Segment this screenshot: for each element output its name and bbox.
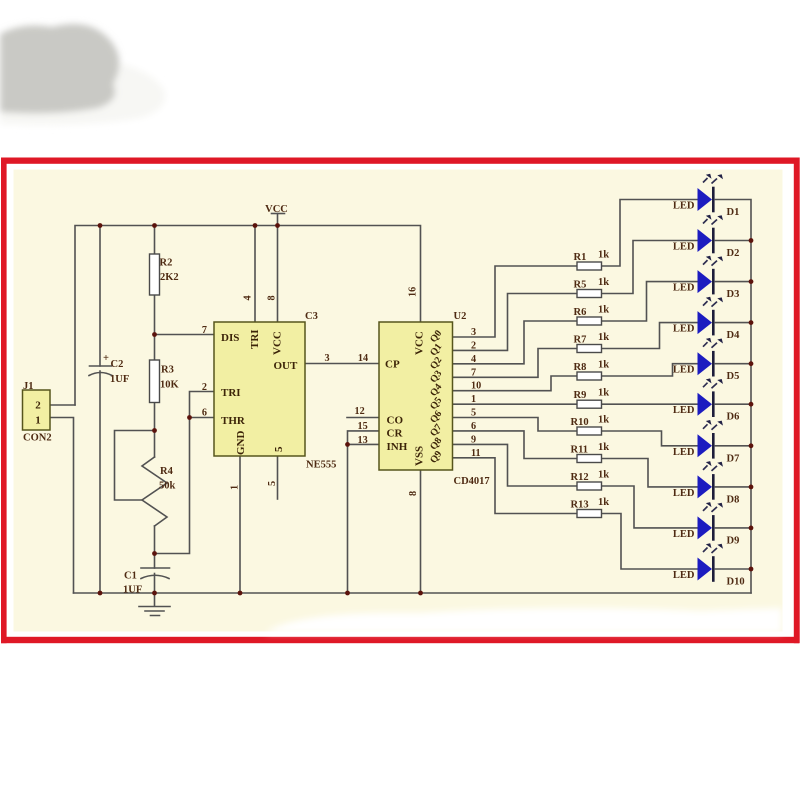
resistor R11 body (577, 455, 602, 463)
resistor R9 body (577, 400, 602, 408)
wire R10 to LED D7 (602, 431, 698, 446)
junction D4 cathode on rail (749, 320, 754, 325)
svg-text:CO: CO (387, 415, 404, 427)
wire Q0 to R1 (453, 266, 578, 337)
LED D3 (698, 256, 724, 295)
junction C1 bottom / GND (152, 591, 157, 596)
resistor R12 body (577, 482, 602, 490)
svg-text:1: 1 (471, 394, 476, 405)
wire Q4 to R8 (453, 376, 578, 391)
resistor R5 body (577, 290, 602, 298)
wire right LED rail (716, 200, 752, 594)
svg-text:14: 14 (358, 353, 368, 364)
svg-text:R10: R10 (571, 417, 589, 428)
svg-text:VSS: VSS (414, 446, 426, 466)
wire C2 lower lead (99, 371, 101, 593)
wire R9 to LED D6 (602, 403, 698, 405)
capacitor C2 plates (89, 366, 112, 376)
svg-text:1k: 1k (598, 305, 609, 316)
svg-text:R2: R2 (160, 258, 173, 269)
svg-text:8: 8 (408, 491, 419, 496)
wire bottom ground rail (74, 592, 752, 594)
svg-text:R1: R1 (574, 252, 587, 263)
wire R11 to LED D8 (602, 459, 698, 487)
svg-text:C1: C1 (124, 571, 137, 582)
wire 555 pin1 GND (239, 456, 241, 593)
svg-text:THR: THR (221, 415, 246, 427)
svg-text:LED: LED (673, 283, 695, 294)
svg-text:1k: 1k (598, 415, 609, 426)
wire Q2 to R6 (453, 321, 578, 364)
wire R8 to LED D5 (602, 364, 698, 376)
resistor R4 zigzag (142, 457, 167, 526)
LED D1 (698, 174, 724, 213)
junction D7 cathode on rail (749, 443, 754, 448)
svg-text:R6: R6 (574, 307, 587, 318)
svg-text:10: 10 (471, 381, 481, 392)
svg-text:TRI: TRI (249, 329, 261, 349)
wire R4 bottom to THR riser (155, 418, 190, 554)
svg-text:2K2: 2K2 (160, 272, 179, 283)
svg-text:VCC: VCC (414, 331, 426, 355)
wire R4 bottom (154, 526, 156, 568)
junction D6 cathode on rail (749, 402, 754, 407)
svg-text:R7: R7 (574, 335, 587, 346)
resistor R8 body (577, 372, 602, 380)
svg-text:12: 12 (355, 406, 365, 417)
wire CO pin12 (347, 417, 379, 419)
wire LED D4 cathode (716, 322, 752, 324)
wire LED D10 cathode (716, 568, 752, 570)
svg-text:1k: 1k (598, 277, 609, 288)
svg-text:D7: D7 (727, 453, 740, 464)
svg-text:6: 6 (471, 421, 476, 432)
wire LED D8 cathode (716, 486, 752, 488)
svg-text:D1: D1 (727, 207, 740, 218)
resistor R13 body (577, 510, 602, 518)
svg-text:CD4017: CD4017 (454, 476, 490, 487)
svg-text:C3: C3 (305, 311, 318, 322)
wire LED D5 cathode (716, 363, 752, 365)
junction DIS tap (152, 332, 157, 337)
junction D3 cathode on rail (749, 279, 754, 284)
svg-text:11: 11 (471, 448, 481, 459)
svg-text:R4: R4 (160, 466, 174, 477)
svg-text:2: 2 (202, 382, 207, 393)
svg-text:7: 7 (202, 325, 207, 336)
svg-text:D10: D10 (727, 577, 745, 588)
junction R2 top on VCC rail (152, 223, 157, 228)
svg-text:LED: LED (673, 405, 695, 416)
svg-text:CR: CR (387, 428, 404, 440)
svg-text:R5: R5 (574, 280, 587, 291)
svg-text:1k: 1k (598, 442, 609, 453)
svg-text:GND: GND (235, 431, 247, 456)
junction R4 bottom / C1 (152, 551, 157, 556)
LED D5 (698, 338, 724, 377)
svg-text:LED: LED (673, 529, 695, 540)
svg-text:LED: LED (673, 242, 695, 253)
connector J1 box (23, 390, 51, 430)
svg-text:50k: 50k (159, 481, 176, 492)
svg-text:15: 15 (358, 421, 368, 432)
wire TRI pin2 (190, 392, 215, 418)
wire Q3 to R7 (453, 349, 578, 378)
resistor R2 body (150, 254, 160, 295)
LED D9 (698, 502, 724, 541)
svg-text:INH: INH (387, 441, 408, 453)
wire C1 lower lead (154, 574, 156, 594)
wire CR pin15 (348, 431, 380, 593)
LEDs D1-D10 (698, 174, 724, 582)
junction 555 pin8 / VCC symbol (275, 223, 280, 228)
wire top VCC rail (75, 226, 421, 406)
wire LED D9 cathode (716, 527, 752, 529)
svg-text:1k: 1k (598, 388, 609, 399)
resistor R7 body (577, 345, 602, 353)
svg-text:D8: D8 (727, 494, 740, 505)
wire Q1 to R5 (453, 294, 578, 351)
wire LED D3 cathode (716, 281, 752, 283)
svg-text:R11: R11 (571, 445, 589, 456)
wire 555 pin8 (277, 226, 279, 323)
svg-text:16: 16 (408, 287, 419, 297)
svg-text:1: 1 (230, 485, 241, 490)
svg-text:4: 4 (243, 295, 254, 300)
wire 555 pin4 (254, 226, 256, 323)
wire Q5 to R9 (453, 403, 578, 405)
svg-text:5: 5 (267, 481, 278, 486)
junction D8 cathode on rail (749, 485, 754, 490)
svg-text:TRI: TRI (221, 387, 241, 399)
junction 555 pin4 on VCC rail (253, 223, 258, 228)
ground symbol (139, 593, 170, 616)
junction D2 cathode on rail (749, 238, 754, 243)
svg-text:OUT: OUT (274, 360, 299, 372)
LED D7 (698, 420, 724, 459)
wire OUT to CP (305, 363, 379, 365)
svg-text:D2: D2 (727, 248, 740, 259)
LED D10 (698, 543, 724, 582)
wire Q8 to R12 (453, 444, 578, 486)
svg-text:CP: CP (385, 359, 400, 371)
svg-text:LED: LED (673, 365, 695, 376)
LED D6 (698, 378, 724, 417)
junction INH ground (345, 591, 350, 596)
wire INH pin13 (348, 443, 380, 445)
wire R5 to LED D2 (602, 241, 698, 294)
IC U2 CD4017 box (379, 322, 453, 470)
svg-text:C2: C2 (111, 359, 124, 370)
junction 555 pin1 on ground rail (238, 591, 243, 596)
wire LED D6 cathode (716, 403, 752, 405)
svg-text:10K: 10K (160, 380, 180, 391)
junction C2 bottom on ground rail (98, 591, 103, 596)
wire LED D2 cathode (716, 240, 752, 242)
wire R3 bottom to R4 (154, 403, 156, 458)
junction R3/R4 wiper (152, 428, 157, 433)
LED D2 (698, 215, 724, 254)
svg-text:1: 1 (35, 415, 41, 427)
svg-text:1k: 1k (598, 497, 609, 508)
svg-text:1UF: 1UF (110, 374, 129, 385)
svg-text:1UF: 1UF (123, 585, 142, 596)
wire R13 to LED D10 (602, 514, 698, 570)
wire DIS pin7 (155, 334, 215, 336)
svg-text:LED: LED (673, 488, 695, 499)
wire THR pin6 (190, 417, 215, 419)
svg-text:+: + (103, 353, 109, 364)
wire J1 pin1 to bottom rail (50, 418, 74, 594)
svg-text:LED: LED (673, 447, 695, 458)
svg-text:DIS: DIS (221, 332, 239, 344)
svg-text:LED: LED (673, 324, 695, 335)
wire R2 bottom to R3 top (154, 295, 156, 360)
op IC U1 NE555 box (214, 322, 305, 456)
LED D8 (698, 461, 724, 500)
wire LED D7 cathode (716, 445, 752, 447)
svg-text:1k: 1k (598, 470, 609, 481)
svg-text:R3: R3 (161, 365, 174, 376)
wire J1 pin2 (50, 404, 75, 406)
LED D4 (698, 297, 724, 336)
svg-text:1k: 1k (598, 332, 609, 343)
svg-text:U2: U2 (454, 311, 467, 322)
wire 555 pin5 stub (277, 456, 279, 499)
junction CD4017 VSS on ground rail (418, 591, 423, 596)
svg-text:5: 5 (273, 446, 285, 452)
svg-text:2: 2 (471, 340, 476, 351)
svg-text:J1: J1 (23, 381, 34, 392)
wire R6 to LED D3 (602, 282, 698, 321)
resistor R10 body (577, 427, 602, 435)
svg-text:3: 3 (471, 327, 476, 338)
resistor R1 body (577, 262, 602, 270)
svg-text:R13: R13 (571, 500, 589, 511)
svg-text:LED: LED (673, 570, 695, 581)
junction C2 top on VCC rail (98, 223, 103, 228)
svg-text:5: 5 (471, 408, 476, 419)
svg-text:R9: R9 (574, 390, 587, 401)
junction D5 cathode on rail (749, 361, 754, 366)
junction D9 cathode on rail (749, 526, 754, 531)
wire Q9 to R13 (453, 458, 578, 514)
svg-text:7: 7 (471, 367, 476, 378)
svg-text:8: 8 (267, 295, 278, 300)
svg-text:NE555: NE555 (306, 460, 336, 471)
svg-text:1k: 1k (598, 250, 609, 261)
junction D10 cathode on rail (749, 567, 754, 572)
svg-text:R12: R12 (571, 472, 589, 483)
svg-text:2: 2 (35, 400, 41, 412)
svg-text:R8: R8 (574, 362, 587, 373)
wire C2 upper lead (99, 226, 101, 367)
svg-text:CON2: CON2 (23, 433, 52, 444)
wire R7 to LED D4 (602, 323, 698, 349)
svg-text:13: 13 (358, 435, 368, 446)
wire R1 to LED D1 (602, 200, 698, 267)
junction TRI-THR tie (187, 415, 192, 420)
resistor R3 body (150, 360, 160, 403)
svg-text:VCC: VCC (265, 204, 288, 215)
svg-text:D5: D5 (727, 371, 740, 382)
wire R12 to LED D9 (602, 486, 698, 528)
svg-text:D3: D3 (727, 289, 740, 300)
svg-text:D4: D4 (727, 330, 741, 341)
svg-text:3: 3 (324, 353, 329, 364)
VCC power bar (272, 213, 285, 215)
svg-text:9: 9 (471, 434, 476, 445)
svg-text:4: 4 (471, 354, 476, 365)
wire R4 wiper bracket (115, 431, 155, 501)
svg-text:VCC: VCC (272, 331, 284, 355)
wire Q6 to R10 (453, 418, 578, 432)
svg-text:D9: D9 (727, 535, 740, 546)
wire CD4017 pin8 VSS (420, 470, 422, 593)
capacitor C1 plates (141, 568, 170, 579)
svg-text:6: 6 (202, 408, 207, 419)
junction CR-INH tie (345, 442, 350, 447)
svg-text:1k: 1k (598, 360, 609, 371)
wire Q7 to R11 (453, 431, 578, 459)
wire R2 top lead (154, 226, 156, 255)
svg-text:D6: D6 (727, 412, 740, 423)
svg-text:LED: LED (673, 201, 695, 212)
resistor R6 body (577, 317, 602, 325)
wire VCC stem (277, 214, 279, 226)
